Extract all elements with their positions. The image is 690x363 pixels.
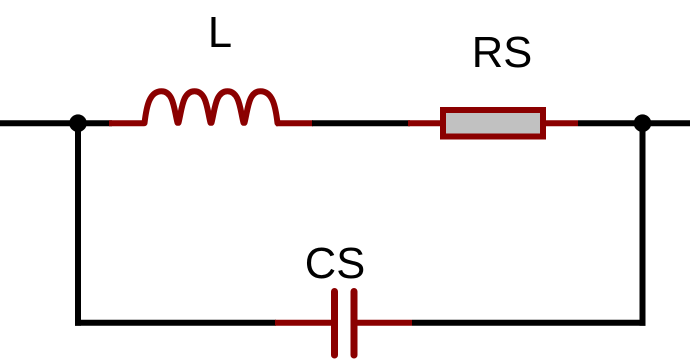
svg-text:RS: RS [472,29,532,77]
wire bottom-right horizontal [412,320,646,326]
wire resistor to right edge [578,120,690,126]
wire right vertical [640,123,646,326]
node right junction [634,114,652,132]
resistor RS lead right [544,120,578,126]
capacitor CS right plate [351,292,358,356]
inductor L lead right [276,120,313,126]
wire top-left horizontal [0,120,112,126]
svg-text:L: L [208,9,232,57]
svg-text:CS: CS [305,240,365,288]
capacitor CS lead left [275,320,331,326]
node left junction [69,114,87,132]
wire between inductor and resistor [312,120,410,126]
capacitor CS lead right [358,320,413,326]
inductor L coil [145,91,278,123]
resistor RS body [443,110,543,137]
wire left vertical [75,123,81,326]
wire bottom-left horizontal [75,320,276,326]
resistor RS lead left [408,120,442,126]
inductor L lead left [109,120,144,126]
capacitor CS left plate [331,292,338,356]
